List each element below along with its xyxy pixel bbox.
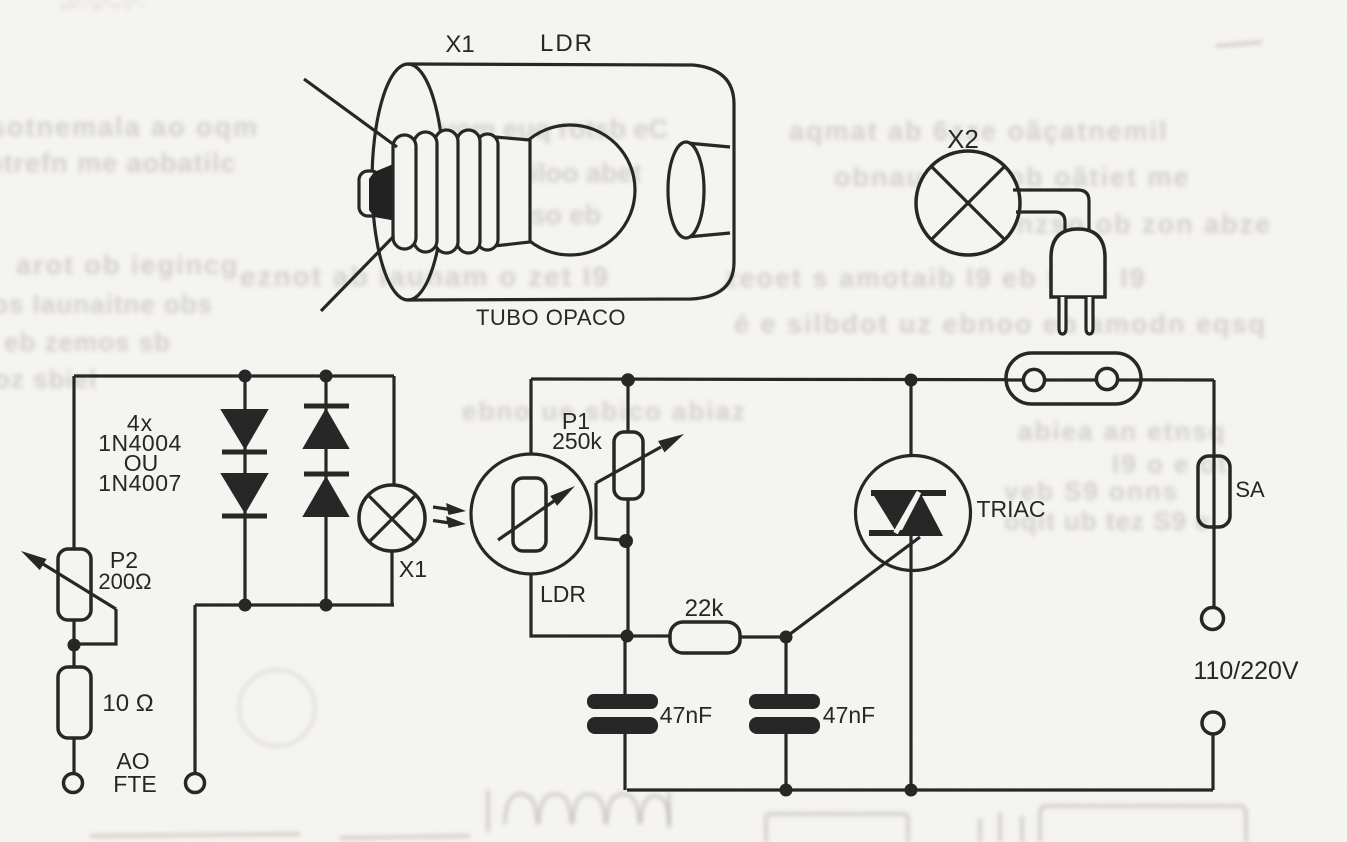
wire: left vertical [72,376,75,550]
svg-text:LDR: LDR [540,30,594,57]
AO FTE label [113,748,156,797]
wire: left top [74,374,394,377]
wire: 22k right lead [740,635,786,638]
wire: lower left horizontal [195,603,394,606]
svg-text:TUBO OPACO: TUBO OPACO [476,305,626,330]
terminal 110/220V bottom [1202,712,1224,734]
diode D3 [304,406,349,448]
wire: triac gate [786,537,920,637]
socket hole right [1096,368,1117,389]
wire: cap C1 leads [623,636,626,790]
22k label [685,595,725,622]
P2 label [98,547,151,594]
svg-text:22k: 22k [685,595,725,622]
svg-text:250k: 250k [552,428,602,454]
X2 label [947,124,979,154]
X1 tube label [445,31,474,58]
wire: P1 vertical [626,380,629,636]
wire: X2 cord upper [1013,190,1089,232]
wire: X2 cord lower [1016,212,1065,232]
C2 label [823,702,875,728]
junction diode1 top [239,370,252,383]
junction bottom triac [905,784,918,797]
svg-text:47nF: 47nF [660,702,712,728]
wire: diode string 2 [324,376,327,605]
resistor 22k [670,622,740,653]
fuse SA [1198,456,1230,527]
wire: cap C2 leads [784,637,787,790]
svg-text:LDR: LDR [540,581,586,607]
junction bottom C2 [780,784,793,797]
wire: triac bottom lead [909,571,912,790]
svg-text:SA: SA [1235,477,1265,502]
wire: terminal 2 up [193,605,196,773]
LDR tube label [540,30,594,57]
wire: bottom main horizontal [627,788,1213,791]
wire: triac top lead [909,380,912,493]
junction triac top [905,374,918,387]
TUBO OPACO label [476,305,626,330]
junction P1 top [621,373,635,387]
SA label [1235,477,1265,502]
4x 1N4004 label [98,410,182,496]
svg-text:X2: X2 [947,124,979,154]
svg-text:200Ω: 200Ω [98,569,151,594]
wire: X1 top lead [392,376,395,487]
LDR recess lines [687,143,730,237]
triac TRC1 [856,456,971,572]
terminal AO FTE left [64,774,83,793]
svg-text:110/220V: 110/220V [1193,657,1299,685]
svg-text:X1: X1 [445,31,474,58]
wire: X1 bottom lead [390,551,393,605]
diode D2 [222,474,267,516]
diode D4 [304,474,349,516]
C1 label [660,702,712,728]
terminal 110/220V top [1202,608,1224,630]
LDR label [540,581,586,607]
svg-text:X1: X1 [399,556,427,582]
potentiometer P1 [596,432,684,540]
TRIAC label [977,496,1046,522]
capacitor C2 47nF [749,694,820,734]
wire: LDR top lead [529,379,532,454]
wire: P2 to node [72,620,75,667]
wire: right vertical lower [1211,734,1214,790]
X1 label [399,556,427,582]
110/220V label [1193,657,1299,685]
socket outlet [1006,353,1141,404]
socket hole left [1023,369,1044,390]
lamp bulb globe [505,125,635,255]
pointer line upper [304,79,397,147]
junction P1 wiper [619,534,633,548]
plug prongs [1059,297,1093,334]
resistor 10 ohm [58,667,91,738]
tube front ellipse [372,64,444,300]
plug body [1051,229,1105,297]
light arrows into LDR [433,503,466,528]
junction node 22k right [780,631,793,644]
P1 label [552,408,602,454]
junction node 22k left [621,630,634,643]
LDR circle [471,454,591,574]
junction below P2 [68,639,81,652]
wire: 10 ohm to terminal [72,738,75,773]
junction diode1 bottom [239,599,252,612]
lamp X2 [916,151,1020,255]
10 ohm label [102,690,153,717]
pointer line lower [321,236,394,311]
wire through socket [1006,378,1141,381]
lamp base tip [359,158,408,223]
LDR recess ellipse [668,142,704,238]
lamp neck [494,137,530,246]
LDR arrow [498,486,575,540]
potentiometer P2 [21,549,116,644]
lamp screw threads [393,130,498,253]
terminal AO FTE right [186,774,205,793]
svg-text:TRIAC: TRIAC [977,496,1046,522]
svg-text:10 Ω: 10 Ω [102,690,153,717]
wire: diode string 1 [243,376,246,605]
tube body [408,64,734,300]
junction diode2 top [320,370,333,383]
junction diode2 bottom [320,599,333,612]
capacitor C1 47nF [587,694,658,734]
svg-text:1N4007: 1N4007 [98,470,182,496]
svg-text:FTE: FTE [113,771,156,797]
wire: LDR bottom lead [531,574,670,636]
wire: right vertical upper [1212,380,1215,607]
LDR body resistor [513,478,546,551]
diode D1 [222,410,267,452]
wire: top main horizontal [531,379,1214,380]
svg-text:47nF: 47nF [823,702,875,728]
lamp X1 [359,485,425,551]
